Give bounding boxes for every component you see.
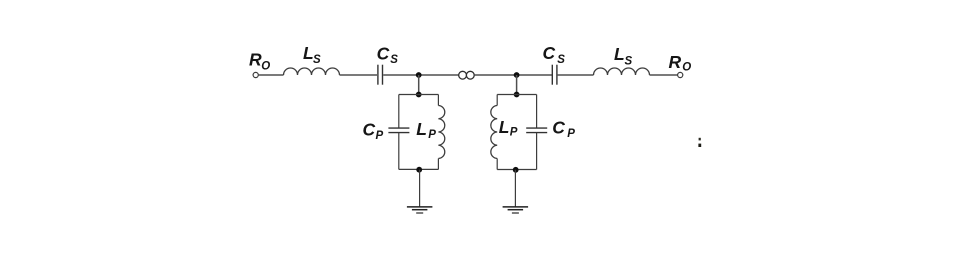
svg-text:S: S [625,55,633,67]
svg-text:O: O [261,60,270,72]
terminal Ro right [678,72,683,77]
terminal Ro left [253,72,258,77]
label Cs right [543,43,566,66]
svg-text:L: L [614,44,625,64]
label Cs left [377,43,399,66]
wire tank2 right branch upper [536,95,538,129]
label Lp2 [499,117,518,139]
wire [558,74,594,76]
svg-text:L: L [416,119,427,139]
svg-text:S: S [390,54,398,66]
wire [383,74,459,76]
wire tank1 left branch lower [398,133,400,170]
svg-text:C: C [552,118,565,138]
capacitor Cp2 [526,128,547,133]
svg-text:P: P [567,128,575,140]
wire ground stem 2 [514,170,516,207]
svg-text:R: R [249,50,262,70]
svg-text:C: C [377,43,390,63]
inductor Lp2 [491,95,497,170]
inductor Ls left [284,68,340,75]
wire tank2 top edge [497,94,536,96]
ellipsis section-break oo [459,71,474,79]
capacitor Cp1 [388,128,409,133]
wire tank1 top edge [399,94,439,96]
svg-text:S: S [313,54,321,66]
wire [474,74,552,76]
wire link tank2 [516,75,518,95]
node tank2 bottom [513,167,519,173]
node tank1 bottom [416,167,422,173]
svg-text:P: P [428,129,436,141]
svg-text:C: C [363,119,376,139]
svg-text:S: S [557,54,565,66]
node junction 2 [514,72,520,78]
ground 1 [407,207,433,213]
inductor Lp1 [438,95,444,170]
svg-text:P: P [510,126,518,138]
wire ground stem 1 [419,170,421,207]
node tank1 top [416,92,422,98]
node junction 1 [416,72,422,78]
label Lp1 [416,119,436,141]
wire link tank1 [418,75,420,95]
label Ro right [669,52,692,73]
svg-text:L: L [499,117,510,137]
node tank2 top [514,92,520,98]
label Ls right [614,44,633,67]
svg-text:P: P [376,130,384,142]
wire tank2 right branch lower [536,133,538,170]
wire tank1 bottom edge [399,168,439,170]
svg-text:O: O [682,62,691,74]
label Ro left [249,50,270,73]
capacitor Cs right [552,65,557,85]
wire [650,74,678,76]
capacitor Cs left [378,65,383,85]
label Cp1 [363,119,384,142]
wire tank2 bottom edge [497,169,536,171]
stray colon mark [698,138,701,147]
svg-text:R: R [669,52,682,72]
ground 2 [503,207,528,213]
label Cp2 [552,118,575,140]
svg-text:C: C [543,43,556,63]
wire [258,74,283,76]
wire tank1 left branch upper [398,95,400,129]
label Ls left [303,43,321,66]
wire [340,74,378,76]
inductor Ls right [594,68,650,75]
